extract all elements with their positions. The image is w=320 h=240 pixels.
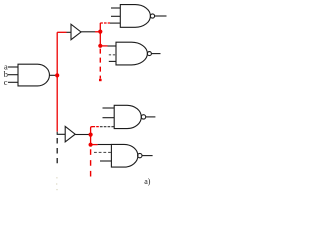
wire red vertical main: [56, 32, 58, 131]
G4 bubble: [138, 153, 142, 157]
NAND gate G4: [111, 144, 138, 167]
wire black dashed vertical below IB corner: [56, 138, 58, 163]
inverter IA: [71, 24, 81, 40]
wire G1 output: [155, 15, 167, 17]
wire G4 input3: [100, 160, 111, 162]
wire G4 input2 gray dashed: [94, 151, 111, 153]
wire IB output black: [75, 134, 89, 136]
wire G2 output: [151, 53, 160, 55]
wire G3 input2: [103, 117, 115, 119]
wire black to G1 input3: [110, 22, 120, 24]
red dash end cap: [99, 79, 102, 81]
node J5 junction dot: [89, 143, 93, 147]
NAND gate G2: [116, 42, 147, 65]
wire black to G2 input1: [108, 45, 117, 47]
wire dark dashed to G3 input3: [100, 126, 114, 128]
G3 bubble: [141, 115, 145, 119]
wire red J3 to G2: [100, 45, 107, 47]
wire G3 output: [146, 116, 156, 118]
wire black corner below red vertical: [57, 132, 65, 135]
G2 bubble: [147, 52, 151, 56]
wire red top corner horizontal: [57, 31, 66, 33]
wire red J5 to right: [91, 144, 98, 146]
node J4 junction dot: [89, 133, 93, 137]
wire G2 input3: [109, 60, 116, 62]
wire red dashed to G3: [93, 126, 101, 128]
wire G0 output: [49, 74, 56, 76]
wire input c: [8, 81, 18, 83]
wire G1 input2: [111, 15, 120, 17]
wire red dashed vertical below J5: [90, 149, 92, 177]
wire G4 output: [142, 155, 153, 157]
wire black into inverter IA: [67, 31, 72, 33]
node J1 junction dot: [55, 73, 59, 77]
NAND gate G1: [120, 5, 150, 28]
faint dots below black dashed: [56, 177, 57, 178]
AND gate G0: [18, 64, 49, 86]
wire G1 input1: [111, 7, 120, 9]
wire red vertical J2 up to corner: [99, 23, 101, 46]
wire input b: [8, 74, 18, 76]
node J2 junction dot: [98, 30, 102, 34]
wire black to G4 top corner: [98, 144, 112, 146]
wire red vertical J4 corner up: [91, 127, 93, 145]
inverter IB: [65, 126, 75, 141]
wire red dashed horizontal to G1: [100, 22, 110, 24]
wire G2 input2 gray dashed: [109, 54, 116, 56]
svg-text:a): a): [144, 177, 151, 186]
NAND gate G3: [114, 105, 141, 128]
wire red dashed vertical below J3: [99, 49, 101, 79]
wire IA output red: [95, 31, 100, 33]
wire IA output black: [81, 31, 95, 33]
svg-text:c: c: [4, 77, 8, 87]
node J3 junction dot: [98, 44, 102, 48]
wire input a: [8, 66, 18, 68]
G1 bubble: [150, 14, 154, 18]
wire G3 input1: [103, 107, 115, 109]
